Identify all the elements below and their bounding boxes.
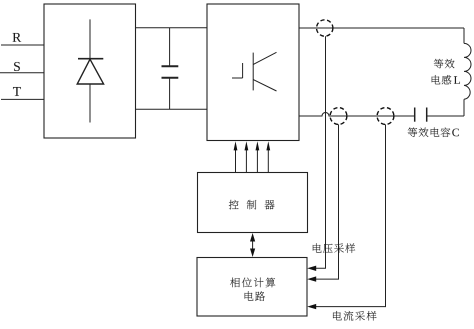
label 等效电容C bbox=[408, 127, 459, 137]
arrowhead current tap bbox=[307, 304, 316, 309]
diode symbol bbox=[77, 19, 103, 122]
capacitor DC-link bbox=[162, 28, 179, 110]
wire voltage tap 2 bbox=[315, 124, 339, 279]
label 相位计算 (phase calculation) bbox=[230, 278, 275, 288]
controller box U1 bbox=[198, 173, 308, 233]
gate drive arrow 4 bbox=[266, 141, 270, 172]
sensor circle top (voltage sensor) bbox=[317, 20, 333, 36]
label 电流采样 (current sampling) bbox=[333, 311, 377, 321]
gate drive arrow 1 bbox=[234, 141, 238, 172]
label 电路 (circuit) bbox=[245, 291, 265, 301]
inverter box bbox=[207, 4, 299, 141]
IGBT symbol bbox=[232, 52, 277, 91]
label R bbox=[13, 33, 22, 42]
equivalent inductor L coil bbox=[464, 43, 471, 99]
wire T input bbox=[1, 98, 44, 100]
wire R input bbox=[1, 44, 44, 46]
wire current tap bbox=[315, 124, 386, 306]
wire S input bbox=[0, 72, 44, 74]
label 等效 bbox=[434, 59, 455, 68]
wire voltage tap 1 bbox=[315, 36, 326, 268]
wire output bottom (with crossover hop) bbox=[299, 113, 415, 116]
label T bbox=[13, 87, 21, 96]
wire right riser bbox=[463, 28, 465, 116]
bidirectional arrow bbox=[250, 233, 255, 257]
arrowhead voltage tap 2 bbox=[307, 276, 316, 281]
sensor circle bottom 2 bbox=[377, 108, 394, 125]
label 电感L bbox=[432, 75, 460, 84]
wire output top bbox=[299, 27, 464, 29]
sensor circle bottom 1 bbox=[330, 108, 347, 125]
arrowhead voltage tap 1 bbox=[307, 266, 316, 271]
gate drive arrow 3 bbox=[256, 141, 260, 172]
label S bbox=[14, 62, 20, 71]
phase calculation circuit box U2 bbox=[197, 258, 307, 317]
equivalent capacitor C bbox=[415, 108, 464, 122]
wire DC+ bbox=[136, 27, 208, 29]
label 电压采样 (voltage sampling) bbox=[313, 243, 355, 253]
rectifier box bbox=[44, 4, 136, 138]
wire DC- bbox=[136, 108, 208, 110]
gate drive arrow 2 bbox=[245, 141, 249, 172]
label 控制器 (controller) bbox=[229, 200, 275, 210]
